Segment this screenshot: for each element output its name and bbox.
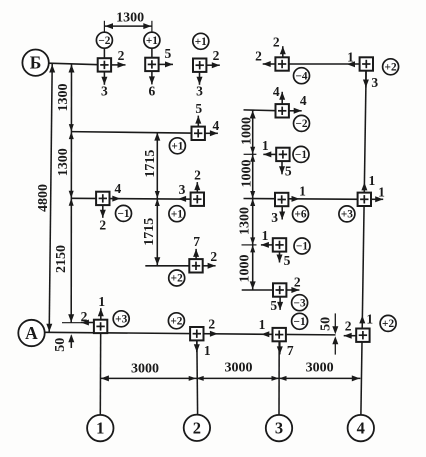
svg-text:4: 4	[300, 93, 307, 108]
svg-text:4800: 4800	[36, 184, 51, 212]
svg-text:1: 1	[369, 173, 376, 188]
label arrowhead 1 left on axis-А line	[261, 331, 269, 337]
svg-text:2150: 2150	[54, 245, 69, 273]
value circle -1 right row2	[293, 146, 309, 162]
svg-text:2: 2	[99, 217, 106, 232]
label arrow 5 up of F	[197, 116, 199, 127]
svg-text:2: 2	[294, 275, 301, 290]
label arrow 2 left of D	[263, 63, 276, 65]
svg-text:1000: 1000	[238, 255, 253, 283]
svg-text:1: 1	[262, 138, 269, 153]
svg-text:1: 1	[96, 419, 104, 438]
svg-text:1300: 1300	[238, 207, 253, 235]
dimension tick row J	[244, 153, 257, 155]
svg-text:4: 4	[273, 84, 280, 99]
label arrow 2 up of D	[282, 46, 284, 58]
label arrow 5 below J	[281, 161, 283, 174]
svg-text:1: 1	[299, 183, 306, 198]
label arrowhead 2 on axis-А line	[210, 331, 218, 337]
svg-text:7: 7	[193, 234, 200, 249]
axis circle 3	[266, 415, 292, 441]
wire: axis 1 vertical line	[99, 326, 101, 415]
benchmark square L	[275, 193, 288, 206]
wire: top-right row line D-E	[282, 63, 366, 65]
label arrowhead 1 up on axis-4 line	[361, 182, 367, 190]
value circle +2 bottom right	[380, 315, 396, 331]
dimension line 1715 (middle column)	[156, 132, 158, 266]
value circle +2 bottom mid	[168, 313, 184, 329]
svg-text:−1: −1	[295, 149, 307, 161]
dimension 50 left: lower shaft with up arrow	[70, 336, 72, 349]
connector circle +1 to square S2	[151, 48, 153, 58]
svg-text:5: 5	[285, 164, 292, 179]
label arrow 2 up of I	[196, 182, 198, 193]
label arrow 7 below R	[279, 341, 281, 354]
svg-text:−1: −1	[117, 208, 129, 220]
svg-text:2: 2	[213, 48, 220, 63]
svg-text:1: 1	[259, 317, 266, 332]
svg-text:3000: 3000	[131, 362, 159, 377]
dimension line 4800 (vertical, left)	[49, 64, 52, 332]
dimension line 3000 bottom	[100, 377, 360, 379]
value circle +1 top b	[193, 33, 209, 49]
wire: right row +6 line L-M	[244, 198, 365, 201]
axis circle А	[18, 320, 44, 346]
label arrow 1 right of M	[371, 198, 383, 200]
svg-text:3: 3	[275, 419, 283, 438]
wire: middle row-1 line	[71, 132, 198, 134]
value circle +1 mid row1	[169, 138, 185, 154]
value circle +1 top a	[144, 32, 160, 48]
label arrow 7 up of K	[195, 249, 197, 260]
wire: right row -3 line	[242, 289, 280, 291]
wire: right row 4-4 line	[244, 109, 283, 112]
value circle -1 left row2	[116, 205, 132, 221]
wire: axis Б horizontal line	[49, 63, 99, 64]
svg-text:2: 2	[208, 316, 215, 331]
label arrow 3 below S1	[103, 71, 105, 84]
benchmark square O	[273, 283, 286, 296]
value circle -2 right	[294, 115, 310, 131]
label arrow 2 right of S3	[206, 64, 220, 66]
svg-text:+3: +3	[341, 209, 353, 221]
benchmark square J	[276, 148, 289, 161]
wire: middle row-2 line	[71, 197, 197, 200]
svg-text:2: 2	[345, 319, 352, 334]
benchmark square S2	[145, 58, 158, 71]
svg-text:2: 2	[194, 168, 201, 183]
svg-text:50: 50	[53, 338, 68, 352]
svg-text:+1: +1	[146, 35, 158, 47]
value circle +2 top right	[383, 59, 399, 75]
value circle +3 right	[339, 206, 355, 222]
svg-text:−4: −4	[295, 70, 307, 82]
value circle -2 top	[96, 32, 112, 48]
svg-text:1300: 1300	[56, 84, 71, 112]
svg-text:+2: +2	[385, 62, 397, 74]
benchmark square S3	[193, 59, 206, 72]
benchmark square E	[360, 57, 373, 70]
svg-text:2: 2	[81, 309, 88, 324]
wire: middle row-3 line	[145, 265, 196, 267]
label arrow 3 below S3	[199, 72, 201, 85]
svg-text:+6: +6	[294, 209, 306, 221]
label arrow 2 left of S	[344, 335, 357, 337]
axis circle 2	[184, 415, 210, 441]
benchmark square G	[276, 104, 289, 117]
wire: axis А horizontal line	[45, 332, 336, 335]
benchmark square S	[356, 329, 369, 342]
dimension 1300 top: line with arrows	[104, 25, 151, 27]
svg-text:1715: 1715	[143, 150, 158, 178]
value circle +1 mid row2	[169, 206, 185, 222]
svg-text:4: 4	[213, 118, 220, 133]
benchmark square P	[94, 320, 107, 333]
svg-text:1: 1	[98, 294, 105, 309]
label arrow 5 right of S2	[158, 63, 173, 65]
svg-text:1: 1	[378, 184, 385, 199]
label arrowhead 4 on row-2 line	[112, 196, 120, 202]
svg-text:2: 2	[193, 418, 201, 437]
svg-text:1: 1	[366, 311, 373, 326]
svg-text:5: 5	[165, 46, 172, 61]
label arrow 5 below N	[279, 251, 281, 262]
label arrow 5 below O	[279, 296, 281, 310]
benchmark square H	[96, 192, 109, 205]
label arrow 3 below E	[365, 70, 367, 87]
axis circle 1	[87, 415, 113, 441]
svg-text:7: 7	[287, 343, 294, 358]
benchmark square R	[273, 328, 286, 341]
label arrow 2 right of K	[203, 265, 216, 267]
value circle +6	[293, 206, 309, 222]
svg-text:3: 3	[179, 182, 186, 197]
svg-text:1715: 1715	[142, 218, 157, 246]
svg-text:5: 5	[270, 298, 277, 313]
dimension tick row N	[242, 244, 257, 246]
wire: axis 4 vertical line	[361, 66, 366, 415]
svg-text:−3: −3	[294, 297, 306, 309]
svg-text:2: 2	[118, 48, 125, 63]
value circle +2 mid row3	[169, 270, 185, 286]
connector circle -2 to square S1	[103, 48, 105, 59]
svg-text:5: 5	[195, 101, 202, 116]
label arrow 1 left of N	[261, 244, 273, 246]
label arrow 4 right of G	[289, 110, 302, 112]
benchmark square M	[358, 193, 371, 206]
dimension 50 right: tick line with arrows	[334, 313, 336, 331]
value circle +3 bottom left	[113, 311, 129, 327]
svg-text:−1: −1	[294, 316, 306, 328]
dimension tick at y=323	[62, 322, 81, 324]
svg-text:+2: +2	[382, 318, 394, 330]
benchmark square I	[191, 193, 204, 206]
svg-text:4: 4	[115, 181, 122, 196]
svg-text:Б: Б	[30, 53, 42, 73]
svg-text:5: 5	[284, 253, 291, 268]
label arrow 2 left of P	[81, 322, 94, 324]
svg-text:4: 4	[357, 419, 365, 438]
svg-text:1300: 1300	[56, 148, 71, 176]
svg-text:3: 3	[271, 210, 278, 225]
svg-text:3: 3	[101, 83, 108, 98]
value circle -1 bottom right	[292, 313, 308, 329]
value circle -4	[294, 68, 310, 84]
svg-text:1000: 1000	[239, 160, 254, 188]
svg-text:+2: +2	[171, 273, 183, 285]
svg-text:+1: +1	[195, 36, 207, 48]
svg-text:1000: 1000	[239, 117, 254, 145]
label arrow 4 right of F	[205, 132, 218, 134]
label arrow 3 below L	[281, 206, 283, 220]
axis circle 4	[348, 415, 374, 441]
svg-text:2: 2	[273, 34, 280, 49]
svg-text:2: 2	[210, 249, 217, 264]
label arrow 1 below Q	[196, 340, 198, 352]
svg-text:−2: −2	[98, 35, 110, 47]
svg-text:1: 1	[347, 50, 354, 65]
svg-text:−1: −1	[296, 241, 308, 253]
axis circle Б	[22, 50, 48, 76]
dimension line right column (1000/1000/1300/1000)	[252, 110, 254, 290]
label arrowhead 3 left on row-2 line	[178, 196, 186, 202]
value circle -3	[292, 295, 308, 311]
label arrow 2 right of S1	[111, 64, 126, 66]
svg-text:+2: +2	[170, 316, 182, 328]
svg-text:1300: 1300	[116, 11, 144, 26]
dimension line left column (1300/1300/2150)	[70, 64, 72, 323]
label arrow 2 below H	[102, 205, 104, 218]
svg-text:+1: +1	[171, 141, 183, 153]
arrowhead on +6 line	[292, 196, 300, 202]
svg-text:+3: +3	[115, 314, 127, 326]
svg-text:+1: +1	[171, 208, 183, 220]
svg-text:3: 3	[371, 75, 378, 90]
wire: axis 2 vertical line	[196, 334, 199, 415]
svg-text:3000: 3000	[225, 361, 253, 376]
label arrow 1 left of J	[263, 153, 276, 155]
wire: axis 3 vertical line	[278, 335, 280, 415]
svg-text:А: А	[25, 323, 38, 343]
dimension 1300 top: ticks	[103, 21, 105, 32]
label arrow 2 right of O	[286, 289, 299, 291]
label arrow 6 below S2	[151, 71, 153, 85]
svg-text:1: 1	[204, 343, 211, 358]
benchmark square Q	[190, 327, 203, 340]
svg-text:3000: 3000	[306, 361, 334, 376]
benchmark square K	[189, 259, 202, 272]
svg-text:2: 2	[255, 49, 262, 64]
svg-text:50: 50	[319, 317, 334, 331]
label arrow 4 up of G	[281, 92, 283, 105]
svg-text:3: 3	[196, 83, 203, 98]
benchmark square N	[273, 238, 286, 251]
svg-text:6: 6	[149, 83, 156, 98]
svg-text:−2: −2	[295, 118, 307, 130]
label arrow 1 up of P	[100, 308, 102, 320]
benchmark square S1	[98, 58, 111, 71]
label arrowhead 1 up on axis-4 (S)	[359, 315, 365, 323]
value circle -1 right row4	[294, 238, 310, 254]
svg-text:1: 1	[262, 228, 269, 243]
benchmark square F	[192, 127, 205, 140]
arrowhead on D-E line	[347, 61, 355, 67]
benchmark square D	[275, 57, 288, 70]
